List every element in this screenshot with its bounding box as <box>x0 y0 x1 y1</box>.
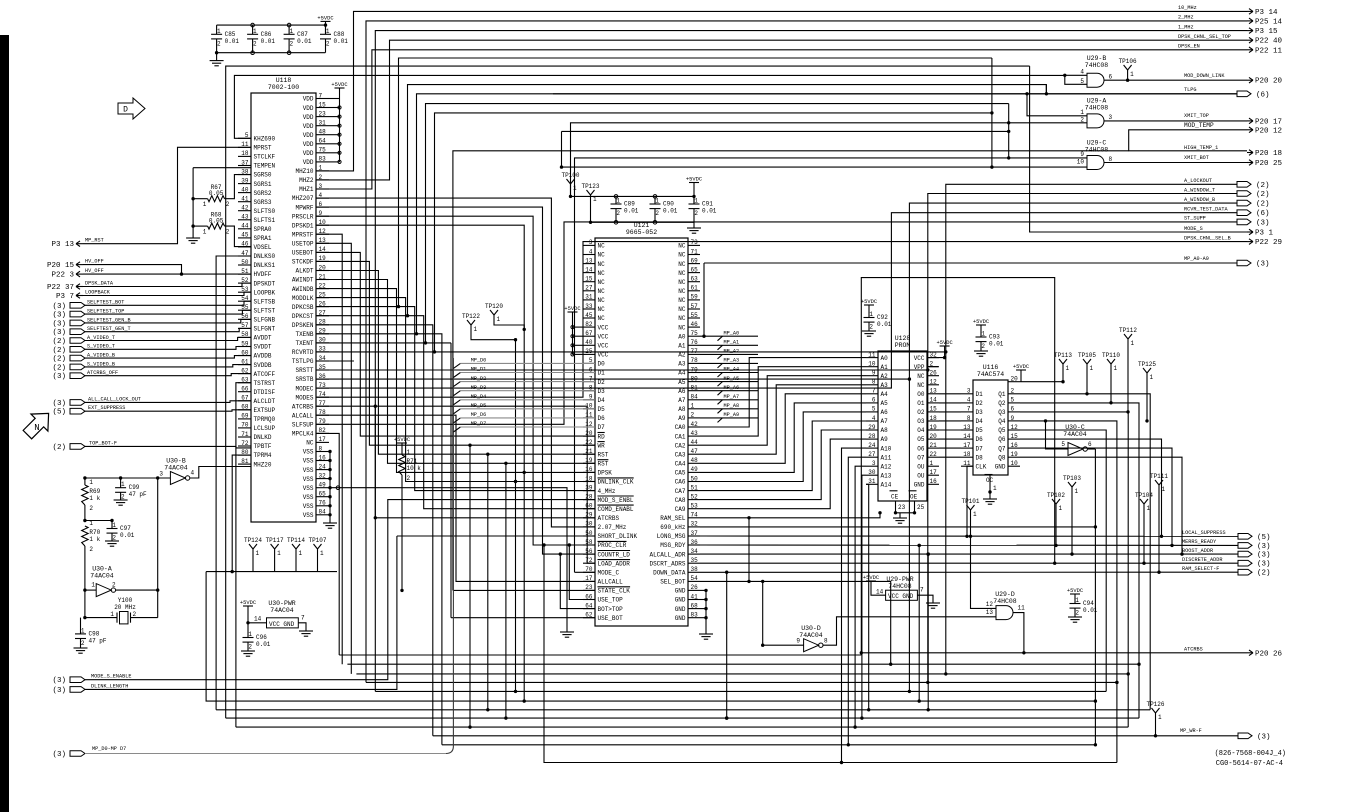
svg-text:O0: O0 <box>917 391 925 398</box>
U121 pin 40 VCC <box>583 344 595 346</box>
svg-text:(2): (2) <box>1257 570 1271 578</box>
resistor R68 <box>191 224 194 227</box>
svg-text:3: 3 <box>872 460 876 467</box>
svg-text:TP102: TP102 <box>1047 492 1065 499</box>
ground <box>983 498 997 500</box>
U118 pin 15 VDD <box>316 107 329 109</box>
U121 pin 82 VCC <box>583 326 595 328</box>
svg-text:MP_A3: MP_A3 <box>724 358 740 364</box>
svg-text:1: 1 <box>973 511 977 518</box>
svg-text:46: 46 <box>691 321 699 328</box>
svg-text:COUNTR_LD: COUNTR_LD <box>598 551 631 558</box>
wire bottom row 664 <box>347 663 1139 665</box>
U121 pin 23 ~STATE_CLK <box>583 589 595 591</box>
U116 pin 9 Q4 <box>1008 420 1020 422</box>
resistor R68 <box>208 223 225 229</box>
wire TEMPEN <box>193 167 251 169</box>
wire outer loop 1 <box>226 66 1030 718</box>
svg-text:OU: OU <box>917 472 925 479</box>
svg-text:10: 10 <box>868 361 876 368</box>
svg-text:+5VDC: +5VDC <box>973 319 989 325</box>
ground for C89-C91 <box>693 222 695 228</box>
wire col470 <box>469 445 471 727</box>
svg-text:NC: NC <box>678 288 686 295</box>
svg-text:(2): (2) <box>1256 182 1270 190</box>
svg-text:48: 48 <box>691 457 699 464</box>
svg-text:GND: GND <box>914 482 925 489</box>
svg-text:VSS: VSS <box>303 494 314 501</box>
svg-text:VSS: VSS <box>303 458 314 465</box>
svg-text:0.01: 0.01 <box>877 321 892 328</box>
wire U29-C.9 row <box>575 158 1088 572</box>
svg-text:TP103: TP103 <box>1063 475 1081 482</box>
U118 pin 18 STCLKF <box>238 155 251 157</box>
wire U29 aux row <box>562 130 1009 132</box>
U118 pin 3 MHZ1 <box>316 188 329 190</box>
svg-text:MODDLK: MODDLK <box>292 295 314 302</box>
input flag SELFTEST_GEN_T <box>70 329 85 335</box>
capacitor C98 <box>75 633 86 635</box>
ground <box>974 350 988 352</box>
U121 pin 80 A5 <box>688 381 700 383</box>
svg-text:RD: RD <box>598 433 606 440</box>
svg-text:2: 2 <box>694 210 698 217</box>
svg-text:41: 41 <box>691 593 699 600</box>
svg-text:690_kHz: 690_kHz <box>660 524 686 531</box>
svg-text:CA2: CA2 <box>675 442 686 449</box>
U121 pin 7 D2 <box>583 381 595 383</box>
svg-text:MP_A8: MP_A8 <box>724 403 740 409</box>
svg-text:NC: NC <box>598 315 606 322</box>
U128 pin 8 A3 <box>866 384 878 386</box>
svg-text:23: 23 <box>319 110 327 117</box>
svg-text:16: 16 <box>930 478 938 485</box>
U116 pin 5 Q2 <box>1008 402 1020 404</box>
U121 pin 22 ~WR <box>583 444 595 446</box>
ground <box>1068 616 1082 618</box>
osc feedback vertical <box>157 478 159 618</box>
svg-text:(3): (3) <box>1256 261 1270 269</box>
svg-text:(826-7568-004J_4): (826-7568-004J_4) <box>1215 750 1286 758</box>
U118 pin 37 TEMPEN <box>238 165 251 167</box>
U118 pin 5 KHZ690 <box>238 137 251 139</box>
svg-text:VDD: VDD <box>303 123 314 130</box>
svg-text:TXENT: TXENT <box>295 340 313 347</box>
net flag MP_D7 <box>453 427 460 432</box>
svg-text:MP_D4: MP_D4 <box>471 394 487 400</box>
wire MODE_S <box>1030 66 1247 232</box>
ground <box>210 60 224 62</box>
svg-text:U118: U118 <box>276 77 292 84</box>
svg-text:C94: C94 <box>1083 600 1094 607</box>
connector P20 18 <box>1247 152 1253 154</box>
svg-text:2: 2 <box>81 640 85 647</box>
wire U30-D in <box>763 581 804 645</box>
svg-text:MP_D5: MP_D5 <box>471 403 487 409</box>
wire bottom row 655 <box>339 654 861 656</box>
IC U121 (9665-052) body <box>595 238 688 626</box>
U121 pin 43 CA1 <box>688 435 700 437</box>
svg-text:P20 26: P20 26 <box>1255 650 1283 658</box>
wire 10_MHz <box>316 11 1247 171</box>
svg-text:CE: CE <box>891 494 899 501</box>
U128 pin 13 O0 <box>927 393 939 395</box>
svg-text:A5: A5 <box>678 379 686 386</box>
svg-text:3: 3 <box>159 471 163 478</box>
svg-text:1: 1 <box>81 627 85 634</box>
U128 pin 6 A5 <box>866 402 878 404</box>
svg-text:O2: O2 <box>917 409 925 416</box>
U121 pin 2 A9 <box>688 417 700 419</box>
svg-text:(3): (3) <box>1256 219 1270 227</box>
svg-text:A_WINDOW_T: A_WINDOW_T <box>1184 187 1215 193</box>
svg-text:8: 8 <box>967 415 971 422</box>
U116 pin 7 D3 <box>961 411 973 413</box>
svg-text:18: 18 <box>963 451 971 458</box>
svg-text:45: 45 <box>241 232 249 239</box>
svg-text:O5: O5 <box>917 436 925 443</box>
U118 pin 11 MPRST <box>238 146 251 148</box>
svg-text:A8: A8 <box>678 406 686 413</box>
svg-text:U116: U116 <box>983 364 999 371</box>
svg-text:ST_SUPP: ST_SUPP <box>1184 216 1206 222</box>
U118 pin 50 DNLKS1 <box>238 264 251 266</box>
svg-text:VSS: VSS <box>303 503 314 510</box>
svg-text:10: 10 <box>1011 460 1019 467</box>
svg-text:17: 17 <box>930 469 938 476</box>
svg-text:D0: D0 <box>598 361 606 368</box>
svg-text:+5VDC: +5VDC <box>317 15 333 21</box>
svg-text:NC: NC <box>598 288 606 295</box>
ground for cap bank <box>216 53 218 61</box>
svg-text:SRSTT: SRSTT <box>295 367 313 374</box>
svg-text:C91: C91 <box>702 201 713 208</box>
connector P20 12 <box>1247 129 1253 131</box>
input flag A_VIDEO_B <box>70 355 85 361</box>
page reference arrow D <box>118 98 145 119</box>
U128 pin 32 VCC <box>927 357 939 359</box>
svg-text:NC: NC <box>678 252 686 259</box>
svg-text:D6: D6 <box>976 436 984 443</box>
U121 pin 27 NC <box>583 290 595 292</box>
svg-text:MODE_C: MODE_C <box>598 570 620 577</box>
wire LONG_MSG LOCAL_SUPPRESS <box>700 535 1238 537</box>
svg-text:P20 20: P20 20 <box>1255 78 1283 86</box>
svg-text:8: 8 <box>824 638 828 645</box>
svg-text:DNLKS0: DNLKS0 <box>254 253 276 260</box>
svg-text:1 k: 1 k <box>89 536 100 543</box>
svg-text:A10: A10 <box>881 445 892 452</box>
U118 pin 42 SLFTS0 <box>238 210 251 212</box>
svg-text:12: 12 <box>1011 424 1019 431</box>
wire MPCLK4 col <box>316 433 339 655</box>
svg-text:1: 1 <box>1114 365 1118 372</box>
U121 pin 56 ~COUNTR_LD <box>583 553 595 555</box>
svg-text:4: 4 <box>872 415 876 422</box>
svg-text:ATCRBS: ATCRBS <box>1184 646 1203 652</box>
svg-text:2: 2 <box>217 40 221 47</box>
U121 pin 81 A6 <box>688 390 700 392</box>
svg-text:CA5: CA5 <box>675 470 686 477</box>
U118 pin 75 VDD <box>316 152 329 154</box>
svg-text:P3 14: P3 14 <box>1255 9 1278 17</box>
U118 pin 25 MODDLK <box>316 297 329 299</box>
svg-text:MP_A0-A9: MP_A0-A9 <box>1184 256 1209 262</box>
svg-text:+5VDC: +5VDC <box>1013 364 1029 370</box>
svg-text:SLFTSB: SLFTSB <box>254 298 276 305</box>
svg-text:SGRS2: SGRS2 <box>254 190 272 197</box>
svg-text:DPSK_DATA: DPSK_DATA <box>85 281 114 287</box>
svg-text:TPRMQ0: TPRMQ0 <box>254 416 276 423</box>
wire bottom row 727 <box>236 726 1128 728</box>
svg-text:P20 25: P20 25 <box>1255 160 1283 168</box>
wire RST <box>316 271 595 455</box>
svg-text:MSG_RDY: MSG_RDY <box>660 542 686 549</box>
svg-text:Q4: Q4 <box>998 418 1006 425</box>
svg-text:19: 19 <box>1011 451 1019 458</box>
svg-text:D7: D7 <box>976 445 984 452</box>
svg-text:1: 1 <box>497 316 501 323</box>
ground <box>926 602 940 604</box>
svg-text:NC: NC <box>598 261 606 268</box>
svg-text:74AC04: 74AC04 <box>799 632 823 639</box>
svg-text:P22 3: P22 3 <box>51 272 74 280</box>
svg-text:10_MHz: 10_MHz <box>1178 5 1197 11</box>
svg-text:81: 81 <box>241 458 249 465</box>
wire ATCRBS row <box>861 652 1247 654</box>
wire CLK <box>967 466 973 536</box>
svg-text:1: 1 <box>1158 714 1162 721</box>
U121 pin 31 NC <box>583 299 595 301</box>
svg-text:P3 15: P3 15 <box>1255 28 1278 36</box>
svg-text:1: 1 <box>289 28 293 35</box>
wire col1095 <box>1094 449 1096 745</box>
U118 pin 69 TPRMQ0 <box>238 418 251 420</box>
ground <box>560 631 574 633</box>
svg-text:MP_A1: MP_A1 <box>724 340 740 346</box>
wire TXENT col down <box>450 343 452 618</box>
svg-text:MP_D0: MP_D0 <box>471 358 487 364</box>
wire TSTRST vertical <box>236 383 251 727</box>
svg-text:MODE_S_ENABLE: MODE_S_ENABLE <box>91 674 131 680</box>
U121 pin 15 NC <box>583 281 595 283</box>
wire DLINK_LENGTH <box>85 536 397 689</box>
svg-text:TP114: TP114 <box>287 537 305 544</box>
svg-text:MPCLK4: MPCLK4 <box>292 431 314 438</box>
svg-text:49: 49 <box>691 466 699 473</box>
U128 pin 7 A4 <box>866 393 878 395</box>
TP collector wire <box>206 571 337 573</box>
svg-text:22: 22 <box>930 451 938 458</box>
svg-text:5: 5 <box>1061 441 1065 448</box>
svg-text:12: 12 <box>986 601 994 608</box>
svg-text:(3): (3) <box>1257 552 1271 560</box>
U121 pin 51 CA7 <box>688 490 700 492</box>
resistor R67 <box>208 196 225 202</box>
U118 pin 82 MPCLK4 <box>316 432 329 434</box>
svg-text:TP110: TP110 <box>1102 352 1120 359</box>
svg-text:14: 14 <box>930 397 938 404</box>
svg-text:35: 35 <box>691 557 699 564</box>
U121 pin 14 NC <box>583 272 595 274</box>
svg-text:(3): (3) <box>52 687 66 695</box>
svg-text:U29-C: U29-C <box>1087 140 1107 147</box>
svg-text:MP_WR-F: MP_WR-F <box>1180 728 1202 734</box>
svg-text:DPSKDT: DPSKDT <box>254 280 276 287</box>
svg-text:+5VDC: +5VDC <box>937 340 953 346</box>
U116 pin 3 D1 <box>961 393 973 395</box>
capacitor C90 <box>650 203 661 205</box>
svg-text:75: 75 <box>691 330 699 337</box>
wire bottom row 691 <box>375 690 1106 692</box>
svg-text:1: 1 <box>593 196 597 203</box>
wire bottom row 701 <box>206 572 1095 702</box>
capacitor C93 <box>976 336 987 338</box>
svg-text:(3): (3) <box>1257 561 1271 569</box>
svg-text:TP117: TP117 <box>266 537 284 544</box>
svg-text:DNLINK_CLK: DNLINK_CLK <box>598 479 634 486</box>
svg-text:1: 1 <box>407 449 411 456</box>
svg-text:1: 1 <box>930 460 934 467</box>
svg-text:MP_A9: MP_A9 <box>724 412 740 418</box>
U121 pin 83 GND <box>688 617 700 619</box>
svg-text:DPSK_CHNL_SEL_TOP: DPSK_CHNL_SEL_TOP <box>1178 34 1231 40</box>
U118 pin 61 SVDDB <box>238 364 251 366</box>
wire Q5 <box>1020 430 1106 691</box>
wire CA2 to A2 <box>700 376 866 446</box>
U128 pin 31 A14 <box>866 483 878 485</box>
svg-text:BOOST_ADDR: BOOST_ADDR <box>1182 548 1213 554</box>
ground <box>862 330 876 332</box>
svg-text:69: 69 <box>691 257 699 264</box>
wire ATCRBS 121 <box>375 406 595 518</box>
resistor R67 <box>191 197 194 200</box>
U116 pin 15 Q6 <box>1008 438 1020 440</box>
svg-text:ALCLDT: ALCLDT <box>254 398 276 405</box>
svg-text:DPSK_EN: DPSK_EN <box>1178 44 1200 50</box>
U118 pin 83 VDD <box>316 161 329 163</box>
svg-text:PRSCLR: PRSCLR <box>292 213 314 220</box>
svg-text:6: 6 <box>872 397 876 404</box>
svg-text:7002-100: 7002-100 <box>268 84 299 91</box>
svg-text:+5VDC: +5VDC <box>863 575 879 581</box>
svg-text:2: 2 <box>981 343 985 350</box>
None <box>1238 534 1252 540</box>
None <box>1237 182 1251 188</box>
svg-text:TP106: TP106 <box>1119 58 1137 65</box>
svg-text:DNLKS1: DNLKS1 <box>254 262 276 269</box>
U118 pin 77 ATCRBS <box>316 405 329 407</box>
svg-text:TPBTF: TPBTF <box>254 443 272 450</box>
U121 pin 25 VCC <box>583 353 595 355</box>
ground <box>699 633 713 635</box>
U121 pin 38 DOWN_DATA <box>688 571 700 573</box>
svg-text:STATE_CLK: STATE_CLK <box>598 588 631 595</box>
svg-text:LOOPBACK: LOOPBACK <box>85 290 111 296</box>
svg-text:A9: A9 <box>881 436 889 443</box>
svg-text:74HC08: 74HC08 <box>1085 105 1109 112</box>
svg-text:1: 1 <box>694 198 698 205</box>
svg-text:OE: OE <box>910 494 918 501</box>
net flag MP_D6 <box>453 418 460 423</box>
capacitor C88 <box>320 33 331 35</box>
svg-text:74: 74 <box>691 512 699 519</box>
svg-text:1: 1 <box>1130 71 1134 78</box>
svg-text:LOOPBK: LOOPBK <box>254 289 276 296</box>
svg-text:2: 2 <box>253 40 257 47</box>
svg-text:D2: D2 <box>976 400 984 407</box>
ground <box>687 227 701 229</box>
svg-text:DOWN_DATA: DOWN_DATA <box>653 570 686 577</box>
svg-text:VCC: VCC <box>598 352 609 359</box>
U118 pin 62 ATCOFF <box>238 373 251 375</box>
bottom bus wire <box>217 52 326 54</box>
connector P3 7 <box>76 295 83 297</box>
wire A_WINDOW_B <box>316 203 1237 379</box>
svg-text:ALLCALL: ALLCALL <box>598 579 624 586</box>
svg-text:76: 76 <box>691 339 699 346</box>
svg-text:43: 43 <box>691 430 699 437</box>
None <box>1237 191 1251 197</box>
U128 pin 2 VPP <box>927 366 939 368</box>
U128 pin 4 A7 <box>866 420 878 422</box>
U118 pin 48 VDD <box>316 134 329 136</box>
U128 pin 24 A10 <box>866 447 878 449</box>
IC U118 (7002-100) body <box>251 93 316 522</box>
U121 pin 47 CA3 <box>688 453 700 455</box>
svg-text:NC: NC <box>917 373 925 380</box>
wire col945 ext <box>945 352 947 674</box>
wire SELFTEST_GEN_B <box>85 319 251 323</box>
svg-text:SLFGNB: SLFGNB <box>254 317 276 324</box>
wire MP_WR-F row <box>433 735 1238 737</box>
svg-text:MP_RST: MP_RST <box>85 238 104 244</box>
svg-text:51: 51 <box>691 484 699 491</box>
svg-text:KHZ690: KHZ690 <box>254 136 276 143</box>
svg-text:SLFSUP: SLFSUP <box>292 422 314 429</box>
input flag ATCRBS_OFF <box>70 373 85 379</box>
wire nest C <box>426 104 1009 343</box>
capacitor C85 <box>211 33 222 35</box>
svg-text:MOD_DOWN_LINK: MOD_DOWN_LINK <box>1184 73 1225 79</box>
svg-text:P22 40: P22 40 <box>1255 38 1283 46</box>
U118 pin 28 DPSKEN <box>316 324 329 326</box>
svg-text:STCLKF: STCLKF <box>254 154 276 161</box>
svg-text:MHZ1: MHZ1 <box>299 186 314 193</box>
svg-text:TPRM4: TPRM4 <box>254 452 272 459</box>
svg-text:TP124: TP124 <box>244 537 262 544</box>
wire nest A <box>408 85 1047 316</box>
U121 pin 41 GND <box>688 599 700 601</box>
ground <box>186 237 200 239</box>
svg-text:D6: D6 <box>598 415 606 422</box>
svg-text:42: 42 <box>691 421 699 428</box>
svg-text:VSS: VSS <box>303 512 314 519</box>
svg-text:SGRS0: SGRS0 <box>254 172 272 179</box>
svg-text:76: 76 <box>319 500 327 507</box>
wire RAM_SEL tap <box>748 518 750 582</box>
svg-text:MP_D2: MP_D2 <box>471 376 487 382</box>
wire U29-A.1 from TLPG <box>1027 94 1087 116</box>
svg-text:D2: D2 <box>598 379 606 386</box>
U128 pin 29 A8 <box>866 429 878 431</box>
wire DPSKEN col <box>316 325 433 736</box>
wire MODE_C <box>575 571 596 573</box>
svg-text:74AC04: 74AC04 <box>270 607 294 614</box>
wire 690_kHz <box>700 526 1095 528</box>
wire HIGH_TEMP_1 feed <box>453 151 1129 591</box>
svg-text:VDD: VDD <box>303 132 314 139</box>
